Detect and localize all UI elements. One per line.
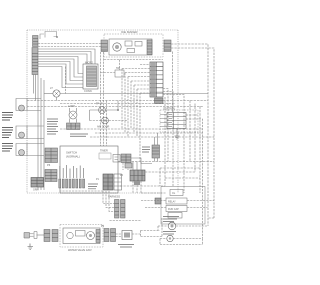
harness staircase top-entry wire 1 xyxy=(38,49,95,64)
damper ground symbol xyxy=(175,136,180,139)
thermostat label box xyxy=(113,155,120,163)
wire under ice maker xyxy=(104,59,163,61)
damper wires left xyxy=(160,115,167,127)
wire ice maker drop xyxy=(172,52,174,113)
timer drops xyxy=(133,181,141,193)
connector P5 dark xyxy=(31,178,44,188)
strip lower stubs xyxy=(34,75,36,101)
ice maker plug P12 right xyxy=(164,40,171,52)
light fixture connector xyxy=(67,123,81,130)
start device inner housing xyxy=(63,228,100,244)
bus mid dashed 2 xyxy=(95,132,203,134)
main harness connector P3 grid xyxy=(150,62,163,97)
harness staircase side-entry wire 3 xyxy=(38,62,83,81)
timer feeds up xyxy=(133,162,141,171)
right harness mesh vertical d xyxy=(199,107,201,194)
damper drop wire xyxy=(176,129,178,137)
evaporator fan connector xyxy=(152,145,160,158)
compressor compartment box xyxy=(161,187,205,225)
bus neutral mid xyxy=(27,106,203,108)
compressor motor xyxy=(168,222,176,230)
start device connector strip xyxy=(96,230,100,243)
P2 feed wires xyxy=(103,191,115,212)
plug wire xyxy=(37,234,45,236)
ptc box xyxy=(168,213,182,219)
svg-text:WATER VALVE 120V: WATER VALVE 120V xyxy=(68,249,92,252)
door switch S1 wires xyxy=(27,99,41,111)
right harness mesh horiz b xyxy=(145,171,195,173)
right riser terminus xyxy=(208,217,214,219)
timer sub box xyxy=(99,153,111,159)
cold control drops xyxy=(123,163,128,171)
switch pin labels vertical xyxy=(60,165,84,178)
cabinet dashed border top xyxy=(27,29,178,31)
ice maker heater xyxy=(127,49,135,53)
riser from staircase to lamp xyxy=(65,67,67,94)
start device contact box xyxy=(76,231,86,237)
lamp branch vertical xyxy=(89,110,91,121)
harness staircase top-entry wire 2 xyxy=(38,52,91,65)
power inlet terminal block TB1 xyxy=(33,36,39,47)
node dot line cord xyxy=(56,36,58,38)
FF lamp wire xyxy=(90,109,119,111)
defrost thermostat xyxy=(122,231,132,240)
damper wires right xyxy=(186,115,203,238)
control housing box xyxy=(60,146,118,193)
cold control twin connector xyxy=(121,154,131,163)
door switch S2 wires xyxy=(27,126,44,139)
holding switch xyxy=(125,41,132,46)
svg-text:CONN: CONN xyxy=(84,89,92,93)
bottom dashed return xyxy=(160,239,203,245)
condenser fan label xyxy=(163,232,176,235)
left harness riser 3 xyxy=(43,80,45,190)
svg-text:AIR DOOR: AIR DOOR xyxy=(97,126,110,129)
wire to defrost thermostat xyxy=(116,234,123,237)
compressor feed blob xyxy=(155,198,161,204)
start device motor circle xyxy=(87,232,95,240)
svg-text:HARNESS: HARNESS xyxy=(108,196,120,199)
line cord loop xyxy=(40,32,57,40)
freezer light lamp L1 xyxy=(53,90,60,97)
door switch S1 xyxy=(16,99,27,112)
svg-text:TIMER: TIMER xyxy=(100,150,108,153)
ice maker plug P11 left xyxy=(101,40,108,52)
start relay box xyxy=(166,198,187,204)
ice maker inner housing xyxy=(109,39,152,55)
bus lower mid xyxy=(118,161,214,163)
condenser fan wires xyxy=(160,238,203,240)
harness staircase side-entry wire 1 xyxy=(38,57,83,74)
start device coil xyxy=(67,232,73,238)
fan connector risers xyxy=(155,133,158,162)
defrost thermostat label xyxy=(118,245,134,248)
wire below P2 xyxy=(110,220,142,222)
evaporator fan label xyxy=(142,147,150,152)
door switch S3 label xyxy=(2,144,13,152)
connector P2 twin strips xyxy=(115,200,126,219)
right harness mesh horiz a xyxy=(160,167,200,169)
harness label block WH/BK xyxy=(47,119,58,134)
svg-text:RUN CAP: RUN CAP xyxy=(168,208,179,211)
connector P1 dark grid xyxy=(103,174,113,190)
FZ lamp wire xyxy=(90,120,129,122)
wire ice maker to right riser 2 xyxy=(171,48,214,218)
P2 drop wires xyxy=(60,190,103,192)
inline connector pair right B xyxy=(111,229,116,242)
wire lamp bus right xyxy=(60,93,208,95)
compressor text lines xyxy=(163,217,179,222)
door switch S2 label xyxy=(2,128,13,138)
auxiliary switch feed xyxy=(101,60,120,73)
inline connector pair left A xyxy=(44,230,50,242)
node dot FF xyxy=(117,109,119,111)
drops from ice maker plug xyxy=(101,52,107,146)
door switch S3 xyxy=(16,144,27,156)
bus FF lamp feed xyxy=(27,100,208,102)
ice maker internal connector strip xyxy=(147,40,152,55)
wire N to ice maker xyxy=(38,46,101,48)
connector P6 xyxy=(45,148,58,163)
condenser fan motor xyxy=(167,235,173,241)
cold control side wire xyxy=(131,158,152,164)
run capacitor box xyxy=(166,206,187,212)
bus mid short xyxy=(60,103,175,105)
compressor motor wire xyxy=(158,225,208,227)
switch row side label xyxy=(88,184,98,189)
lamp drop to bus xyxy=(56,97,58,100)
bus mid dashed 3 xyxy=(90,136,214,138)
wire ice maker to right riser 1 xyxy=(171,44,208,226)
door switch S2 xyxy=(16,126,27,139)
right harness mesh vertical b xyxy=(189,101,191,162)
thermostat risers xyxy=(158,218,162,237)
cabinet connector strip P8 xyxy=(32,48,38,75)
FZ lamp xyxy=(102,117,109,124)
damper control dashed box xyxy=(160,110,198,132)
auxiliary switch box xyxy=(115,67,124,77)
right harness mesh vertical c xyxy=(194,104,196,173)
P3 right exit wires xyxy=(163,89,184,194)
compressor dashed right wires xyxy=(187,201,214,208)
door switch S1 label xyxy=(2,113,13,121)
right harness mesh vertical a xyxy=(164,97,166,186)
bus upper mid dashed xyxy=(60,128,203,130)
P3 pin wires left xyxy=(122,65,150,94)
svg-text:P6: P6 xyxy=(47,163,51,167)
cabinet dashed border bottom xyxy=(27,192,163,194)
svg-text:(NORMAL): (NORMAL) xyxy=(66,155,80,159)
lamp feed vertical xyxy=(117,101,119,111)
small aux connector above timer xyxy=(125,163,132,168)
start device dashed enclosure xyxy=(60,225,103,248)
wire lamp left xyxy=(44,93,53,95)
svg-text:LT: LT xyxy=(50,86,53,90)
interior light fixture xyxy=(69,108,77,123)
connector P7 xyxy=(45,170,57,182)
power cord plug xyxy=(24,232,37,239)
svg-text:LAMP: LAMP xyxy=(68,105,75,108)
right harness mesh horiz c xyxy=(120,185,165,187)
svg-text:RELAY: RELAY xyxy=(168,201,176,204)
cabinet dashed border right xyxy=(177,30,179,193)
harness staircase top-entry wire 3 xyxy=(38,54,87,64)
timer cam blob xyxy=(134,182,140,186)
ice maker dashed enclosure xyxy=(104,34,163,57)
door switch S3 wires xyxy=(27,144,44,156)
overload protector box xyxy=(170,190,183,196)
chassis ground xyxy=(28,244,34,250)
cabinet dashed border left xyxy=(26,30,28,193)
ice maker motor M xyxy=(113,43,121,51)
svg-text:ICE MAKER: ICE MAKER xyxy=(121,30,138,34)
damper control module xyxy=(167,113,186,129)
P3 pin wire risers xyxy=(122,69,140,162)
left harness riser 1 xyxy=(37,75,39,191)
FF lamp xyxy=(99,107,106,114)
harness staircase side-entry wire 2 xyxy=(38,59,83,77)
right harness mesh horiz a2 xyxy=(165,177,200,179)
defrost timer contact block xyxy=(130,170,145,181)
right harness mesh vertical e xyxy=(159,168,161,186)
shutoff switch xyxy=(135,42,142,47)
harness staircase side-entry wire 4 xyxy=(38,64,83,84)
connector P1b grid xyxy=(114,174,122,190)
compressor feed wires xyxy=(141,193,166,208)
left harness riser 2 xyxy=(40,78,42,190)
harness staircase side-entry wire 5 xyxy=(38,67,83,88)
svg-text:GRN: GRN xyxy=(33,189,39,192)
switch pin strip row xyxy=(59,179,85,188)
thermostat out wires xyxy=(132,231,162,237)
connector J2 block xyxy=(83,64,98,89)
lamp connector label xyxy=(70,134,88,136)
inline connector pair left B xyxy=(52,230,58,242)
P13 aux connector xyxy=(155,98,164,104)
wire L1 to ice maker xyxy=(38,43,101,45)
inline connector pair right A xyxy=(104,229,109,242)
svg-text:FF LT: FF LT xyxy=(96,103,103,106)
